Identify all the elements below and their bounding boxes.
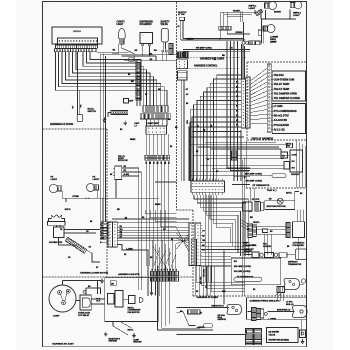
- svg-text:WH/BK: WH/BK: [130, 139, 136, 141]
- svg-text:W6: W6: [158, 89, 161, 91]
- svg-text:BK/WH: BK/WH: [155, 204, 161, 206]
- svg-text:W8: W8: [175, 127, 178, 129]
- svg-text:YL: YL: [205, 287, 207, 289]
